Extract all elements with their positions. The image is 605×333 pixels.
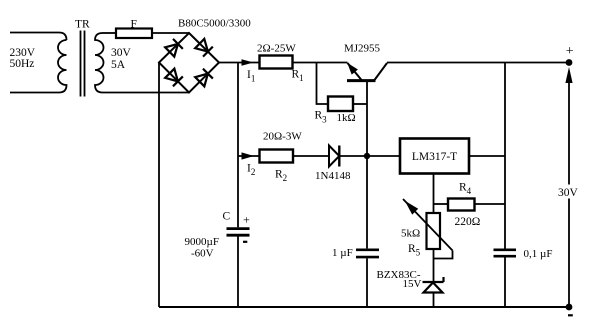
- svg-text:50Hz: 50Hz: [10, 58, 35, 70]
- wire cap C to bottom rail: [237, 236, 239, 307]
- svg-text:15V: 15V: [403, 278, 422, 290]
- transistor Q1 emitter arrow: [347, 63, 358, 75]
- svg-text:30V: 30V: [558, 187, 579, 199]
- potentiometer R5 body: [427, 213, 441, 249]
- bridge diode top-right: [195, 39, 213, 57]
- svg-text:20Ω-3W: 20Ω-3W: [263, 131, 302, 143]
- arrow 30V pointing up: [565, 67, 572, 83]
- svg-text:-60V: -60V: [191, 248, 214, 260]
- svg-text:1N4148: 1N4148: [315, 170, 351, 182]
- wire fuse to bridge top vertex: [152, 32, 189, 34]
- wire node A down to 1uF cap: [366, 156, 368, 248]
- wire pot bottom to zener: [433, 249, 435, 281]
- transformer TR core: [81, 31, 85, 97]
- resistor R3 body: [328, 97, 353, 112]
- label cap C minus: [243, 241, 247, 243]
- wire secondary top to fuse: [103, 32, 117, 34]
- transformer TR primary winding: [58, 40, 67, 93]
- resistor R2 body: [260, 150, 294, 163]
- svg-text:5A: 5A: [111, 59, 126, 71]
- svg-text:F: F: [131, 19, 137, 31]
- wire R4 to output rail: [475, 203, 506, 205]
- svg-text:1 µF: 1 µF: [332, 247, 353, 259]
- wire collector to plus output rail: [387, 62, 569, 64]
- transistor Q1 base bar: [347, 79, 376, 82]
- wire output rail down: [504, 63, 506, 249]
- wire R3 branch from emitter wire: [317, 63, 329, 105]
- bridge diode bottom-right: [195, 69, 213, 87]
- svg-text:220Ω: 220Ω: [455, 216, 481, 228]
- wire R3 to base line: [353, 103, 367, 105]
- bridge rectifier B80C5000/3300 diamond: [159, 33, 219, 93]
- potentiometer R5 wiper connection: [434, 251, 453, 259]
- svg-text:5kΩ: 5kΩ: [401, 228, 420, 240]
- capacitor 1uF plates: [356, 250, 379, 257]
- svg-text:9000µF: 9000µF: [185, 236, 219, 248]
- resistor R4 body: [448, 199, 475, 211]
- wire bottom minus rail: [159, 306, 569, 308]
- capacitor C plates: [227, 229, 250, 236]
- svg-text:1kΩ: 1kΩ: [337, 112, 356, 124]
- node plus output terminal dot: [566, 59, 573, 66]
- label minus terminal: [568, 314, 573, 316]
- transformer TR secondary winding: [95, 33, 104, 93]
- wire R1 to transistor emitter: [293, 62, 348, 64]
- wire LM317 adjust down: [433, 174, 435, 214]
- resistor R1 body: [260, 56, 293, 69]
- wire base down to node A: [366, 81, 368, 156]
- svg-text:+: +: [243, 213, 250, 227]
- label 30V output: [555, 185, 584, 200]
- svg-text:C: C: [223, 211, 231, 223]
- wire diode to LM317 input: [339, 155, 400, 157]
- transistor Q1 MJ2955 emitter diagonal: [348, 63, 362, 80]
- wire 0,1uF cap to bottom rail: [504, 257, 506, 307]
- svg-text:0,1 µF: 0,1 µF: [524, 248, 553, 260]
- capacitor 0,1uF plates: [494, 250, 517, 256]
- wire R2 to diode 1N4148: [293, 155, 329, 157]
- svg-text:MJ2955: MJ2955: [344, 43, 381, 55]
- potentiometer R5 wiper diagonal: [403, 199, 453, 251]
- wire LM317 output: [469, 155, 505, 157]
- transistor Q1 collector diagonal: [375, 63, 388, 80]
- svg-text:30V: 30V: [111, 47, 132, 59]
- arrow current I2: [242, 152, 255, 159]
- wire bridge minus rail left: [158, 63, 160, 308]
- wire output measurement line: [568, 82, 570, 307]
- svg-text:2Ω-25W: 2Ω-25W: [257, 43, 296, 55]
- svg-text:TR: TR: [75, 19, 90, 31]
- diode D1 1N4148: [329, 146, 339, 167]
- wire input bottom: [10, 92, 59, 94]
- regulator U1 LM317-T box: [400, 139, 469, 174]
- bridge diode bottom-left: [165, 68, 183, 86]
- wire plus rail down (node to cap C): [237, 63, 239, 228]
- bridge diode top-left: [165, 39, 183, 57]
- wire bridge plus to R1: [219, 62, 260, 64]
- node minus output terminal dot: [566, 304, 573, 311]
- arrow current I1: [242, 59, 254, 66]
- svg-text:B80C5000/3300: B80C5000/3300: [178, 18, 251, 30]
- node A junction dot: [364, 153, 370, 159]
- wire secondary bottom to bridge bottom vertex: [103, 92, 190, 94]
- wire input top: [10, 33, 67, 41]
- wire 1uF cap to bottom rail: [366, 258, 368, 307]
- potentiometer R5 arrow head: [405, 201, 418, 215]
- zener diode BZX83C-15V: [423, 277, 444, 293]
- svg-text:+: +: [566, 44, 574, 59]
- fuse F: [116, 29, 152, 39]
- wire plus rail branch to R2: [238, 155, 260, 157]
- svg-text:LM317-T: LM317-T: [412, 151, 457, 163]
- wire adjust to R4: [434, 203, 449, 205]
- wire zener to bottom rail: [433, 293, 435, 308]
